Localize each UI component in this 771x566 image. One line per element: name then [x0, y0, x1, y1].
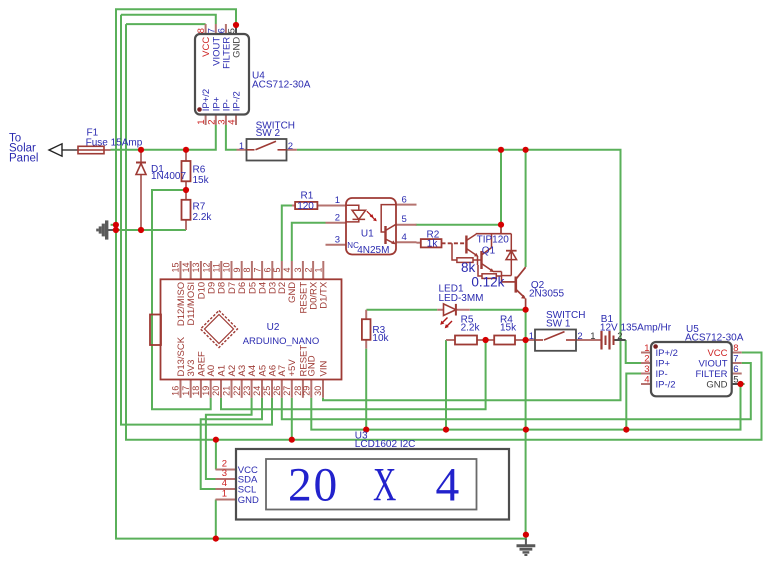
svg-text:8: 8 — [733, 343, 738, 354]
svg-text:R1: R1 — [301, 190, 314, 201]
svg-text:X: X — [373, 458, 396, 511]
svg-text:A1: A1 — [216, 365, 227, 377]
svg-text:0: 0 — [314, 460, 338, 512]
svg-text:NC: NC — [347, 241, 359, 250]
svg-text:4N25M: 4N25M — [357, 245, 389, 256]
svg-text:14: 14 — [181, 262, 191, 272]
svg-text:12V 135Amp/Hr: 12V 135Amp/Hr — [600, 322, 672, 333]
svg-text:8: 8 — [242, 267, 252, 272]
svg-text:VIOUT: VIOUT — [698, 359, 727, 370]
svg-text:1: 1 — [590, 331, 595, 342]
svg-text:7: 7 — [733, 354, 738, 365]
svg-text:15k: 15k — [193, 175, 210, 186]
svg-text:GND: GND — [307, 355, 318, 376]
svg-text:16: 16 — [171, 386, 181, 396]
svg-text:FILTER: FILTER — [695, 369, 727, 380]
svg-text:U1: U1 — [361, 229, 374, 240]
svg-text:3: 3 — [335, 234, 340, 245]
svg-text:ACS712-30A: ACS712-30A — [252, 79, 311, 90]
svg-text:TIP120: TIP120 — [477, 235, 510, 246]
svg-text:2: 2 — [288, 460, 312, 512]
svg-text:30: 30 — [313, 386, 323, 396]
svg-text:2N3055: 2N3055 — [529, 288, 564, 299]
svg-text:3: 3 — [644, 364, 649, 375]
svg-text:2: 2 — [303, 267, 313, 272]
svg-text:5: 5 — [227, 28, 238, 33]
svg-text:R7: R7 — [193, 202, 206, 213]
svg-text:2: 2 — [577, 331, 582, 342]
svg-text:+5V: +5V — [287, 359, 298, 377]
svg-text:13: 13 — [191, 262, 201, 272]
svg-text:18: 18 — [191, 386, 201, 396]
svg-text:IP-: IP- — [656, 369, 668, 380]
svg-text:2.2k: 2.2k — [193, 212, 213, 223]
svg-text:25: 25 — [262, 386, 272, 396]
svg-text:20: 20 — [211, 386, 221, 396]
svg-text:Panel: Panel — [9, 153, 38, 165]
svg-text:Fuse 15Amp: Fuse 15Amp — [86, 138, 143, 149]
svg-text:29: 29 — [302, 386, 312, 396]
svg-text:9: 9 — [232, 267, 242, 272]
svg-text:27: 27 — [282, 386, 292, 396]
svg-text:1: 1 — [335, 195, 340, 206]
svg-text:4: 4 — [436, 460, 460, 512]
svg-text:10: 10 — [222, 262, 232, 272]
svg-text:24: 24 — [252, 386, 262, 396]
svg-text:4: 4 — [644, 375, 649, 386]
svg-text:11: 11 — [212, 263, 222, 272]
svg-text:1k: 1k — [427, 239, 439, 250]
svg-text:6: 6 — [263, 267, 273, 272]
svg-text:10k: 10k — [372, 333, 389, 344]
svg-text:IP+/2: IP+/2 — [656, 348, 678, 359]
svg-text:4: 4 — [222, 478, 227, 489]
svg-text:19: 19 — [201, 386, 211, 396]
svg-text:GND: GND — [232, 37, 243, 58]
svg-text:Q1: Q1 — [482, 246, 496, 257]
svg-text:120: 120 — [297, 201, 314, 212]
svg-text:GND: GND — [287, 282, 298, 303]
svg-text:5: 5 — [272, 267, 282, 272]
svg-text:15k: 15k — [500, 322, 517, 333]
svg-text:VCC: VCC — [707, 348, 727, 359]
svg-text:R5: R5 — [461, 314, 474, 325]
svg-text:8k: 8k — [461, 260, 476, 275]
svg-text:SW 1: SW 1 — [546, 319, 571, 330]
svg-text:GND: GND — [238, 495, 259, 506]
svg-text:4: 4 — [282, 267, 292, 272]
svg-text:2: 2 — [288, 141, 293, 152]
svg-text:5: 5 — [733, 375, 738, 386]
svg-text:23: 23 — [242, 386, 252, 396]
svg-text:GND: GND — [706, 380, 727, 391]
svg-text:4: 4 — [227, 120, 238, 125]
svg-text:12: 12 — [201, 262, 211, 272]
svg-text:SCL: SCL — [238, 485, 256, 496]
svg-text:2: 2 — [644, 354, 649, 365]
svg-text:4: 4 — [402, 232, 407, 243]
svg-text:A4: A4 — [247, 365, 258, 377]
svg-text:R6: R6 — [193, 165, 206, 176]
svg-text:15: 15 — [171, 262, 181, 272]
svg-text:6: 6 — [733, 364, 738, 375]
svg-text:5: 5 — [402, 214, 407, 225]
svg-text:2: 2 — [617, 331, 622, 342]
svg-text:1: 1 — [239, 141, 244, 152]
svg-text:SW 2: SW 2 — [256, 128, 281, 139]
svg-text:2: 2 — [335, 212, 340, 223]
svg-text:1: 1 — [644, 343, 649, 354]
svg-text:LCD1602 I2C: LCD1602 I2C — [355, 439, 416, 450]
svg-text:IP+: IP+ — [656, 359, 671, 370]
svg-text:D1/TX: D1/TX — [319, 281, 330, 309]
svg-text:26: 26 — [272, 386, 282, 396]
svg-text:U2: U2 — [267, 322, 280, 333]
svg-text:3: 3 — [293, 267, 303, 272]
svg-text:1: 1 — [314, 267, 324, 272]
svg-text:IP-/2: IP-/2 — [656, 380, 676, 391]
svg-text:IP-/2: IP-/2 — [232, 91, 243, 111]
svg-text:7: 7 — [252, 267, 262, 272]
svg-text:6: 6 — [402, 194, 407, 205]
svg-text:LED-3MM: LED-3MM — [439, 293, 484, 304]
svg-text:1: 1 — [222, 489, 227, 500]
svg-text:1: 1 — [529, 331, 534, 342]
svg-text:17: 17 — [181, 386, 191, 396]
svg-text:ACS712-30A: ACS712-30A — [685, 333, 744, 344]
svg-text:1N4007: 1N4007 — [151, 171, 186, 182]
svg-text:0.12k: 0.12k — [471, 274, 504, 289]
svg-text:22: 22 — [232, 386, 242, 396]
svg-text:VIN: VIN — [318, 361, 329, 377]
svg-text:21: 21 — [222, 386, 232, 396]
